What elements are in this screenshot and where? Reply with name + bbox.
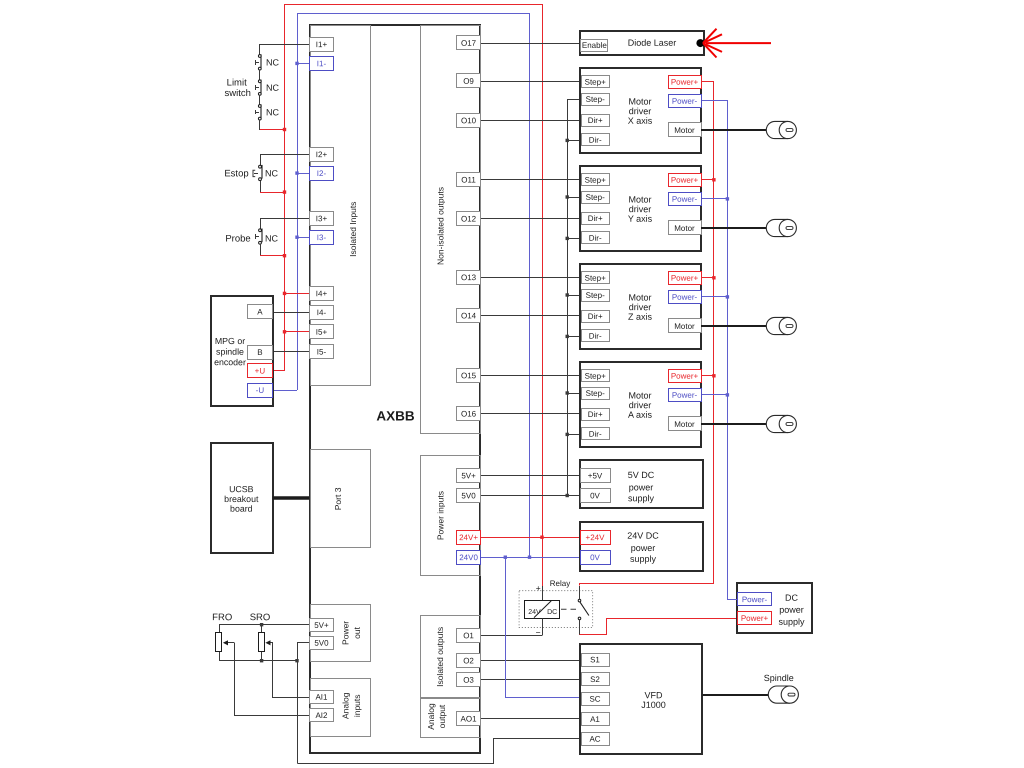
svg-text:I2-: I2- (317, 169, 327, 178)
svg-text:driver: driver (629, 106, 652, 116)
svg-text:AXBB: AXBB (376, 408, 415, 423)
svg-text:O1: O1 (463, 631, 474, 640)
terminal S1 (582, 654, 610, 667)
wire blue SC (506, 558, 582, 698)
wire motor X (701, 129, 766, 131)
wire pots bottom rail (219, 660, 297, 662)
svg-text:encoder: encoder (214, 357, 246, 367)
wire blue to I3- (297, 237, 310, 239)
svg-text:Motor: Motor (628, 390, 651, 400)
motor A symbol (766, 415, 796, 432)
wire 5V+ to +5V (481, 475, 580, 477)
svg-text:Isolated Inputs: Isolated Inputs (348, 202, 358, 257)
svg-text:5V+: 5V+ (314, 621, 329, 630)
terminal Step- Y (582, 192, 610, 204)
wire blue -U (272, 390, 297, 392)
svg-text:I1+: I1+ (316, 40, 328, 49)
svg-text:J1000: J1000 (641, 700, 666, 710)
wire red Power+ A stub (701, 375, 714, 377)
svg-text:O15: O15 (461, 371, 477, 380)
svg-text:X axis: X axis (628, 116, 653, 126)
junction Step- A (566, 391, 569, 394)
wire FRO wiper to AI2 (235, 643, 310, 716)
motor driver A box (580, 362, 701, 447)
wire pots top rail to 5V+ (219, 624, 310, 626)
motor driver Y box (580, 166, 701, 251)
svg-text:I3-: I3- (317, 233, 327, 242)
terminal I2+ (310, 148, 334, 162)
svg-text:UCSB: UCSB (229, 484, 254, 494)
wire limit chain segment 2 (259, 70, 261, 80)
wire motor Z (701, 325, 766, 327)
junction blue Power- Y (726, 197, 729, 200)
svg-text:Spindle: Spindle (764, 673, 794, 683)
wire red right vertical bus (to 24V+ and relay) (542, 4, 544, 588)
junction Dir- A (566, 433, 569, 436)
wire motor Y (701, 227, 766, 229)
inner box Power inputs (421, 456, 481, 576)
terminal O1 (457, 629, 481, 643)
svg-text:Dir-: Dir- (589, 332, 602, 341)
svg-text:I1-: I1- (317, 59, 327, 68)
terminal O9 (457, 74, 481, 88)
motor X symbol (766, 121, 796, 138)
AXBB main box (310, 25, 480, 753)
svg-text:Power: Power (341, 621, 351, 645)
terminal +U (248, 364, 273, 378)
svg-text:driver: driver (629, 204, 652, 214)
wire Step-/Dir- common rail (568, 100, 582, 496)
terminal Power+ A (669, 370, 702, 383)
svg-text:Power-: Power- (672, 195, 698, 204)
svg-text:Probe: Probe (225, 233, 250, 244)
wire O13 to Step+ Z (481, 277, 581, 279)
svg-text:Power+: Power+ (671, 78, 699, 87)
terminal Power+ Y (669, 174, 702, 187)
terminal Step+ X (582, 76, 610, 88)
svg-text:Relay: Relay (550, 579, 570, 588)
terminal I4+ (310, 287, 334, 301)
terminal Power- X (669, 95, 702, 108)
motor driver X box (580, 68, 701, 153)
svg-text:VFD: VFD (644, 690, 663, 700)
relay dotted enclosure (519, 591, 593, 628)
svg-text:AI2: AI2 (315, 711, 328, 720)
terminal SC (582, 693, 610, 706)
junction blue Power- Z (726, 295, 729, 298)
svg-text:supply: supply (630, 554, 657, 564)
wire bottom rail to AC (298, 739, 582, 764)
svg-text:Analog: Analog (341, 692, 351, 719)
svg-text:NC: NC (266, 83, 280, 93)
svg-text:Power inputs: Power inputs (436, 491, 446, 540)
wire spindle (703, 694, 769, 696)
svg-text:Port 3: Port 3 (333, 487, 343, 510)
terminal B (248, 346, 273, 360)
terminal I5+ (310, 325, 334, 339)
terminal +24V (581, 531, 611, 545)
5V DC power supply box (580, 460, 703, 508)
svg-text:0V: 0V (590, 491, 600, 500)
wire red to I4+ (284, 293, 310, 295)
junction red limit (283, 128, 286, 131)
wire red Power+ Z stub (701, 277, 714, 279)
junction red Power+ A (712, 374, 715, 377)
wire probe bottom segment (260, 244, 262, 256)
svg-text:Diode Laser: Diode Laser (628, 38, 677, 48)
svg-text:Dir+: Dir+ (588, 312, 603, 321)
svg-text:O10: O10 (461, 116, 477, 125)
svg-text:O17: O17 (461, 39, 477, 48)
wire estop top segment (260, 154, 262, 165)
svg-text:Step-: Step- (586, 193, 605, 202)
svg-text:24V+: 24V+ (459, 533, 478, 542)
laser beam red arrow (703, 29, 771, 58)
svg-text:Limit: Limit (227, 77, 247, 88)
terminal Motor Z (669, 319, 702, 333)
wire red Power+ chain (580, 82, 714, 586)
terminal Power- Y (669, 193, 702, 206)
svg-text:Step+: Step+ (585, 176, 606, 185)
wire AO1 to A1 (481, 718, 582, 720)
svg-text:Step+: Step+ (585, 274, 606, 283)
wire probe top segment (260, 218, 262, 229)
terminal Dir+ A (582, 409, 610, 421)
terminal AC (582, 733, 610, 746)
relay contact top (578, 599, 581, 602)
wire O2 to S1 (481, 660, 582, 662)
svg-text:SC: SC (589, 695, 600, 704)
wire red to I5+ (284, 331, 310, 333)
svg-text:Step-: Step- (586, 95, 605, 104)
svg-text:Power+: Power+ (741, 614, 769, 623)
svg-text:0V: 0V (590, 553, 600, 562)
svg-text:Step-: Step- (586, 389, 605, 398)
wire O15 to Step+ A (481, 375, 581, 377)
inner box Analog output (421, 699, 481, 738)
terminal S2 (582, 673, 610, 686)
terminal I4- (310, 306, 334, 320)
svg-text:+24V: +24V (586, 533, 606, 542)
svg-text:NC: NC (265, 234, 279, 244)
switch NC probe (256, 229, 263, 245)
terminal Step+ Z (582, 272, 610, 284)
wire relay switch bottom lead (579, 620, 581, 635)
svg-text:I2+: I2+ (316, 150, 328, 159)
svg-text:Power+: Power+ (671, 176, 699, 185)
terminal 5V+ out (310, 619, 334, 632)
terminal Step- Z (582, 290, 610, 302)
svg-text:O3: O3 (463, 676, 474, 685)
terminal 5V0 in (457, 489, 481, 503)
svg-text:Enable: Enable (582, 41, 607, 50)
svg-text:Dir-: Dir- (589, 136, 602, 145)
terminal O13 (457, 271, 481, 285)
svg-text:O9: O9 (463, 77, 474, 86)
svg-text:breakout: breakout (224, 494, 259, 504)
terminal A1 (582, 713, 610, 726)
wire Step- Y stub (567, 197, 581, 199)
wire B to I5- (272, 351, 310, 353)
terminal 0V (24V supply) (581, 551, 611, 565)
potentiometer SRO (259, 625, 274, 661)
terminal Dir- Y (582, 232, 610, 244)
svg-text:spindle: spindle (216, 347, 244, 357)
relay dashed actuator link (561, 608, 580, 610)
junction blue Power- A (726, 393, 729, 396)
svg-text:power: power (631, 543, 656, 553)
svg-text:Motor: Motor (674, 224, 695, 233)
svg-text:+U: +U (255, 366, 266, 375)
switch NC estop (253, 165, 262, 181)
wire red probe bottom to bus (260, 255, 284, 257)
svg-text:5V DC: 5V DC (628, 470, 655, 480)
svg-text:supply: supply (628, 493, 655, 503)
junction bottom rail to 5V0 net (295, 659, 298, 662)
24V DC power supply box (580, 522, 703, 571)
svg-text:Motor: Motor (674, 126, 695, 135)
terminal I2- (310, 167, 334, 181)
wire O1 to relay coil (481, 635, 542, 637)
svg-text:Analog: Analog (426, 703, 436, 730)
svg-text:5V0: 5V0 (461, 491, 476, 500)
terminal Step+ Y (582, 174, 610, 186)
relay contact bottom (578, 617, 581, 620)
wire relay switch top lead (579, 586, 581, 599)
wire O9 to Step+ X (481, 81, 581, 83)
potentiometer FRO (216, 625, 235, 661)
svg-text:FRO: FRO (212, 612, 232, 623)
svg-text:driver: driver (629, 400, 652, 410)
wire O3 to S2 (481, 679, 582, 681)
svg-text:O2: O2 (463, 656, 474, 665)
svg-text:Power-: Power- (742, 595, 768, 604)
svg-text:board: board (230, 504, 253, 514)
inner box Port 3 (311, 450, 371, 548)
wire blue left vertical bus (297, 13, 299, 390)
terminal AI2 (310, 709, 334, 722)
svg-text:Power-: Power- (672, 97, 698, 106)
wire blue to I2- (297, 173, 310, 175)
terminal Power- (DC supply) (738, 593, 772, 606)
terminal -U (248, 384, 273, 398)
junction red 24V+ (540, 536, 543, 539)
junction Step- Z (566, 293, 569, 296)
wire estop bottom segment (260, 181, 262, 192)
svg-text:Step+: Step+ (585, 78, 606, 87)
terminal Dir- A (582, 428, 610, 440)
wire red 24V+ to +24V (481, 537, 580, 539)
svg-text:O16: O16 (461, 409, 477, 418)
svg-text:Power+: Power+ (671, 372, 699, 381)
terminal I1+ (310, 38, 334, 52)
wire red left vertical bus (284, 4, 286, 371)
junction Dir- Z (566, 335, 569, 338)
junction red Power+ Z (712, 276, 715, 279)
terminal I3+ (310, 212, 334, 226)
terminal O15 (457, 369, 481, 383)
terminal Enable (581, 40, 608, 52)
terminal I1- (310, 57, 334, 71)
bus UCSB to Port 3 (273, 496, 310, 500)
wire red +U (272, 370, 284, 372)
svg-text:AC: AC (589, 735, 600, 744)
svg-text:Dir-: Dir- (589, 430, 602, 439)
junction rail to 5V0 wire (566, 494, 569, 497)
junction blue I1- (295, 62, 298, 65)
svg-text:Dir+: Dir+ (588, 116, 603, 125)
wire blue Power- Z stub (701, 296, 727, 298)
wire Dir- Z stub (567, 336, 581, 338)
relay contact lever (580, 602, 589, 616)
svg-text:SRO: SRO (250, 612, 271, 623)
svg-text:I5+: I5+ (316, 328, 328, 337)
terminal O3 (457, 673, 481, 687)
wire blue top bus (298, 13, 530, 15)
svg-text:24V0: 24V0 (459, 553, 478, 562)
wire relay coil bottom lead (542, 619, 544, 636)
svg-text:Step-: Step- (586, 291, 605, 300)
wire red limit bottom to bus (260, 129, 284, 131)
terminal 24V+ (457, 531, 481, 545)
wire Step- A stub (567, 393, 581, 395)
terminal I3- (310, 231, 334, 245)
terminal Motor A (669, 417, 702, 431)
svg-text:O13: O13 (461, 273, 477, 282)
svg-text:Non-isolated outputs: Non-isolated outputs (435, 187, 445, 265)
wire relay coil top lead (542, 586, 544, 600)
DC power supply box (737, 583, 812, 633)
junction blue 24V0 SC tap (504, 556, 507, 559)
svg-text:switch: switch (224, 88, 250, 99)
svg-text:Motor: Motor (628, 96, 651, 106)
svg-text:S2: S2 (590, 675, 600, 684)
svg-text:24V DC: 24V DC (627, 531, 659, 541)
inner box Isolated outputs (421, 616, 481, 698)
wire blue Power- A stub (701, 394, 727, 396)
svg-text:Y axis: Y axis (628, 214, 653, 224)
svg-text:S1: S1 (590, 655, 600, 664)
inner box Power out (311, 605, 371, 662)
svg-text:24V: 24V (528, 609, 541, 616)
wire O12 to Dir+ Y (481, 218, 581, 220)
svg-text:Power-: Power- (672, 293, 698, 302)
junction red I4+ (283, 292, 286, 295)
svg-text:+5V: +5V (588, 471, 603, 480)
junction red probe (283, 254, 286, 257)
wire limit chain segment 3 (259, 95, 261, 105)
svg-text:-U: -U (256, 386, 265, 395)
terminal Dir+ X (582, 115, 610, 127)
terminal Dir- Z (582, 330, 610, 342)
wire red top bus (285, 4, 543, 6)
svg-text:Z axis: Z axis (628, 312, 653, 322)
svg-text:I3+: I3+ (316, 214, 328, 223)
svg-text:out: out (352, 626, 362, 638)
terminal I5- (310, 345, 334, 359)
terminal O11 (457, 173, 481, 187)
laser emission dot (696, 39, 704, 47)
svg-text:NC: NC (266, 58, 280, 68)
wire probe to I3+ (260, 218, 310, 220)
wire red estop bottom to bus (260, 192, 284, 194)
svg-text:NC: NC (266, 107, 280, 117)
svg-text:Motor: Motor (674, 322, 695, 331)
terminal Motor X (669, 123, 702, 137)
svg-text:A: A (257, 307, 263, 316)
svg-text:Motor: Motor (674, 420, 695, 429)
wire blue to I1- (297, 63, 310, 65)
terminal Power+ Z (669, 272, 702, 285)
switch NC limit 1 (256, 54, 262, 70)
wire blue 24V0 to 0V (481, 557, 580, 559)
svg-text:B: B (257, 348, 262, 357)
svg-text:A1: A1 (590, 715, 600, 724)
VFD J1000 box (580, 644, 702, 754)
wire O14 to Dir+ Z (481, 315, 581, 317)
terminal AI1 (310, 691, 334, 704)
svg-text:AI1: AI1 (315, 693, 328, 702)
svg-text:driver: driver (629, 302, 652, 312)
wire Dir- A stub (567, 434, 581, 436)
spindle motor symbol (768, 686, 798, 703)
terminal O10 (457, 114, 481, 128)
wire Step- Z stub (567, 295, 581, 297)
svg-text:Dir+: Dir+ (588, 410, 603, 419)
svg-text:supply: supply (778, 617, 805, 627)
svg-text:power: power (779, 605, 804, 615)
terminal Step- X (582, 94, 610, 106)
wire O16 to Dir+ A (481, 413, 581, 415)
wire O17 to Enable (481, 43, 581, 45)
svg-text:power: power (629, 482, 654, 492)
relay coil box 24V DC (525, 601, 560, 619)
wire blue Power- Y stub (701, 198, 727, 200)
wire motor A (701, 423, 766, 425)
svg-text:DC: DC (785, 593, 799, 603)
wire Dir- Y stub (567, 238, 581, 240)
wire limit chain bottom (259, 120, 261, 130)
svg-text:Power-: Power- (672, 391, 698, 400)
svg-text:O14: O14 (461, 311, 477, 320)
svg-text:Motor: Motor (628, 292, 651, 302)
UCSB breakout board box (211, 443, 273, 553)
terminal 24V0 (457, 551, 481, 565)
terminal Motor Y (669, 221, 702, 235)
svg-text:inputs: inputs (352, 694, 362, 717)
inner box Analog inputs (311, 679, 371, 737)
svg-text:Dir+: Dir+ (588, 214, 603, 223)
junction red estop (283, 190, 286, 193)
inner box Non-isolated outputs (421, 26, 481, 434)
junction Step- Y (566, 195, 569, 198)
svg-text:O12: O12 (461, 214, 477, 223)
motor Y symbol (766, 219, 796, 236)
wire O10 to Dir+ X (481, 120, 581, 122)
terminal Step- A (582, 388, 610, 400)
terminal Power- Z (669, 291, 702, 304)
svg-text:NC: NC (265, 168, 279, 178)
junction red I5+ (283, 330, 286, 333)
junction red Power+ Y (712, 178, 715, 181)
junction blue I2- (295, 171, 298, 174)
junction Dir- Y (566, 237, 569, 240)
terminal Dir- X (582, 134, 610, 146)
motor Z symbol (766, 317, 796, 334)
wire red relay to Power+ (580, 619, 738, 635)
wire 5V0 net vertical (298, 643, 310, 764)
svg-text:Dir-: Dir- (589, 234, 602, 243)
